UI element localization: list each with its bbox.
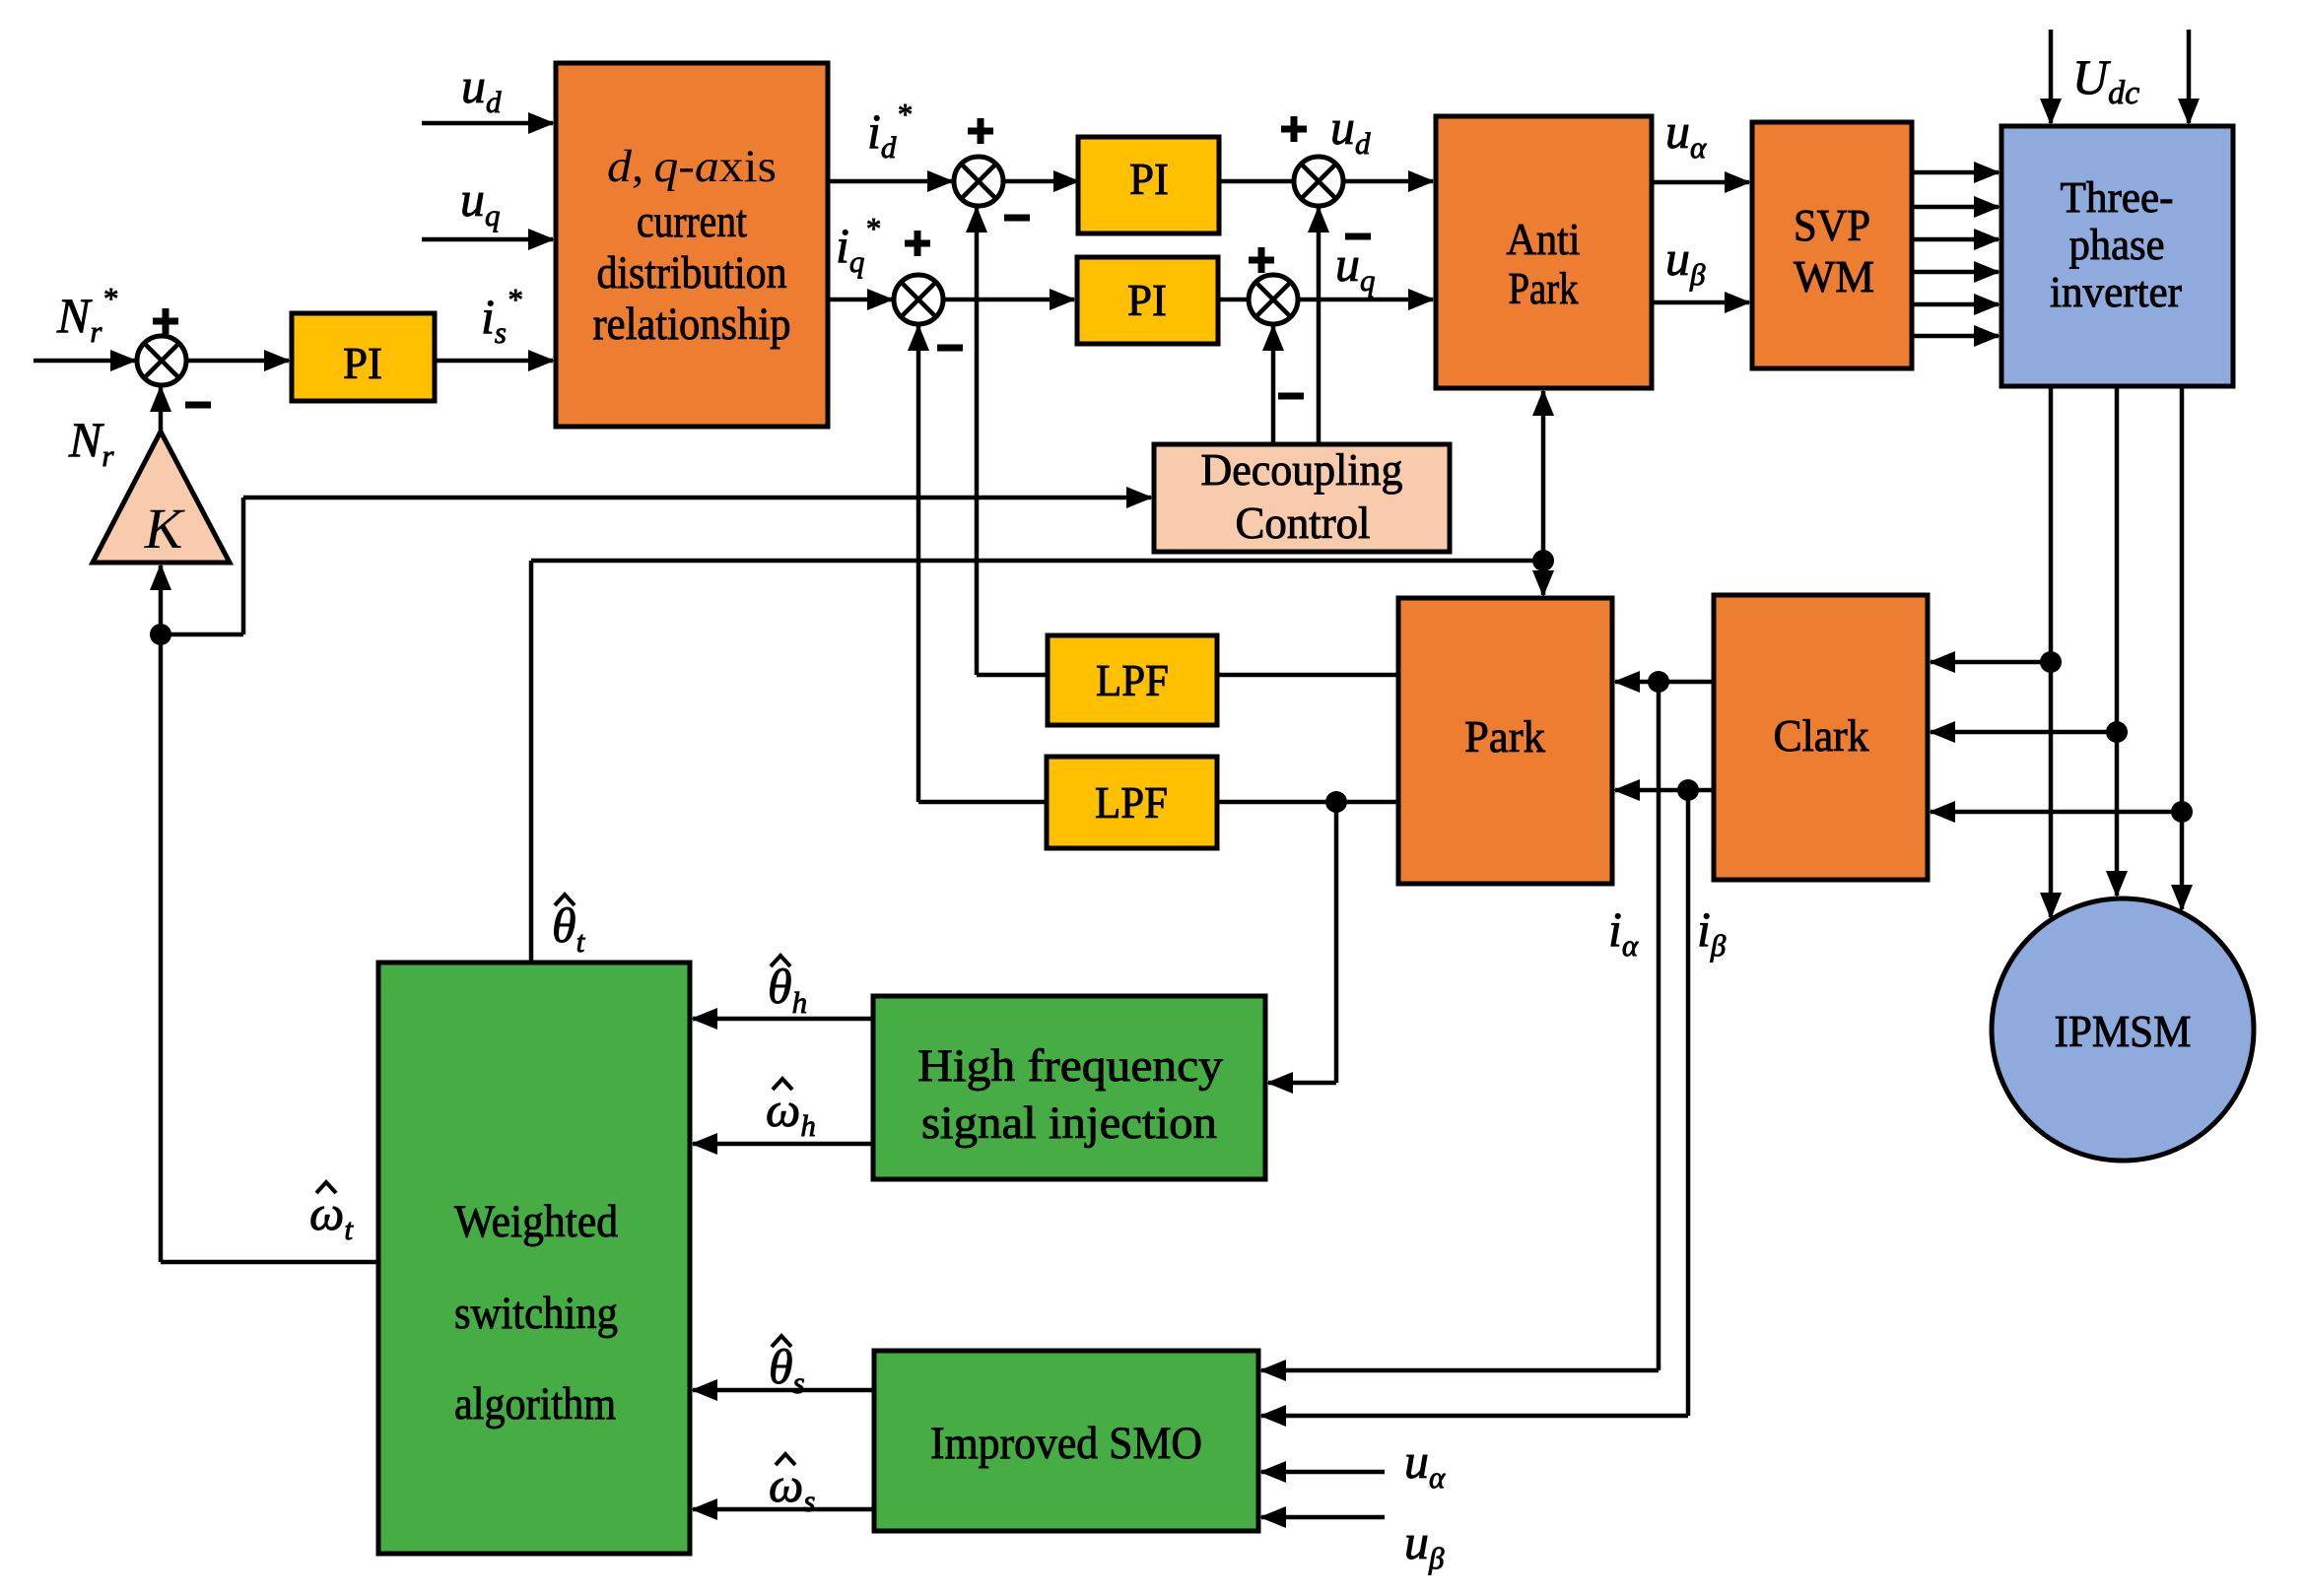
svg-text:Control: Control	[1236, 499, 1371, 548]
svg-text:IPMSM: IPMSM	[2055, 1006, 2192, 1056]
svg-text:algorithm: algorithm	[454, 1378, 616, 1430]
svg-text:current: current	[637, 196, 747, 247]
svg-text:phase: phase	[2069, 221, 2165, 269]
svg-text:PI: PI	[1127, 275, 1167, 325]
svg-text:d, q-axis: d, q-axis	[607, 141, 777, 192]
svg-text:Weighted: Weighted	[454, 1196, 618, 1247]
svg-text:LPF: LPF	[1096, 655, 1169, 705]
svg-text:Three-: Three-	[2061, 173, 2174, 222]
svg-text:PI: PI	[1129, 154, 1169, 204]
svg-text:Park: Park	[1509, 263, 1579, 313]
svg-text:inverter: inverter	[2050, 268, 2182, 316]
svg-text:K: K	[144, 497, 186, 561]
svg-text:SVP: SVP	[1794, 200, 1870, 250]
svg-text:Park: Park	[1464, 711, 1545, 762]
svg-text:distribution: distribution	[597, 247, 787, 299]
svg-text:WM: WM	[1794, 251, 1874, 301]
svg-text:Improved SMO: Improved SMO	[930, 1418, 1202, 1469]
svg-text:LPF: LPF	[1095, 777, 1168, 828]
svg-text:Decoupling: Decoupling	[1201, 445, 1403, 495]
svg-text:switching: switching	[454, 1288, 618, 1339]
svg-text:signal injection: signal injection	[921, 1097, 1217, 1149]
svg-text:Anti: Anti	[1507, 214, 1581, 264]
svg-text:High frequency: High frequency	[917, 1040, 1224, 1092]
svg-text:Clark: Clark	[1774, 710, 1869, 761]
svg-text:PI: PI	[343, 338, 382, 388]
svg-text:relationship: relationship	[593, 299, 791, 350]
